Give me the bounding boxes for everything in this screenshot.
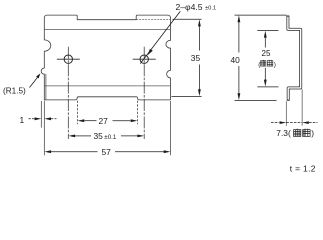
hole right (140, 55, 148, 63)
hole left centrelines (57, 58, 80, 60)
dim 40: extension ticks (235, 14, 287, 16)
dim 27: extension lines (77, 101, 79, 125)
svg-text:t = 1.2: t = 1.2 (290, 164, 316, 174)
svg-text:±0.1: ±0.1 (104, 134, 117, 141)
bottom fold line (44, 85, 170, 87)
side view S-profile (inner white) (288, 17, 301, 100)
front view plate outline (41, 15, 170, 100)
top edge line continuing under right tab (136, 19, 170, 21)
side view S-profile (outer) (288, 16, 301, 101)
svg-text:2–φ4.5: 2–φ4.5 (176, 2, 203, 12)
svg-text:±0.1: ±0.1 (205, 6, 216, 12)
svg-text:25: 25 (262, 49, 271, 58)
left edge lower segment (43, 96, 45, 100)
svg-text:57: 57 (102, 147, 112, 157)
dim 57 line + arrows (51, 151, 98, 153)
dim 35+-0.1: line + arrows (75, 135, 91, 137)
label 2-dia4.5 +-0.1 (176, 2, 217, 12)
dim 1: arrows (29, 118, 35, 120)
svg-text:27: 27 (99, 116, 109, 126)
bottom edge with centre recess (44, 97, 170, 100)
dim 25: line + arrows (264, 37, 266, 47)
svg-text:35: 35 (191, 53, 201, 63)
svg-text:7.3(: 7.3( (276, 128, 291, 138)
dim 1: extension lines (40, 101, 42, 128)
hole left (64, 55, 72, 63)
dim 35 vertical: dimension line (198, 26, 200, 51)
top fold line (44, 28, 170, 30)
dim 27 line + arrows (85, 120, 97, 122)
svg-text:1: 1 (20, 115, 25, 125)
svg-text:): ) (311, 128, 314, 138)
dim 7.3: extension lines (285, 101, 287, 126)
dim 7.3: arrows outside (271, 122, 279, 124)
R1.5 leader (30, 75, 40, 87)
svg-text:): ) (274, 61, 276, 68)
svg-text:(R1.5): (R1.5) (3, 87, 26, 96)
hole right centrelines (133, 58, 156, 60)
dim 35 vertical: extension lines (173, 18, 202, 20)
svg-text:35: 35 (94, 131, 104, 141)
dim 25: extension ticks (257, 29, 278, 31)
svg-text:40: 40 (231, 55, 241, 65)
hole label leader 2-dia4.5 (140, 11, 180, 63)
bottom tab left edge (1mm offset line under ear) (45, 74, 47, 100)
dim 57: extension line right (170, 101, 172, 155)
dim 40: line + arrows (238, 22, 240, 53)
